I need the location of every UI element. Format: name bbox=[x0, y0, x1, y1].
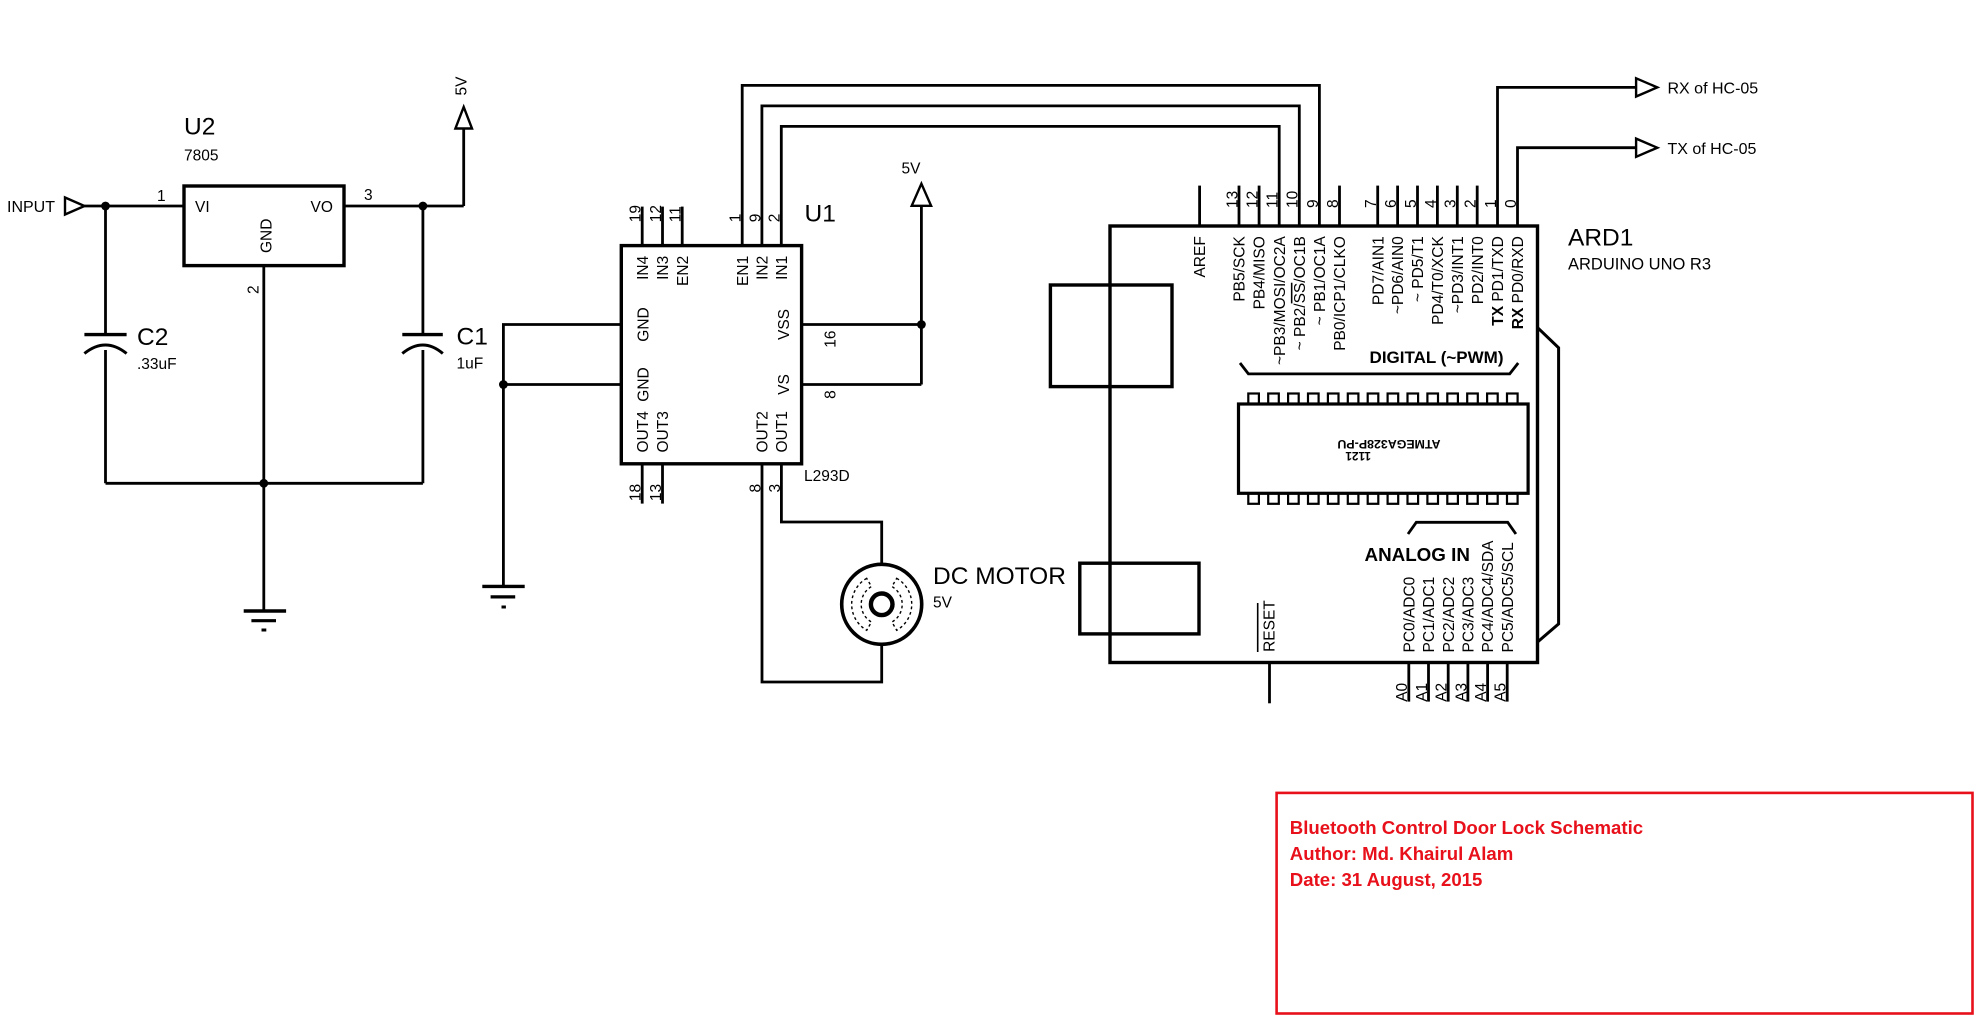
ground symbol (power section) bbox=[244, 611, 286, 630]
svg-text:EN2: EN2 bbox=[675, 256, 692, 286]
ground symbol (U1) bbox=[482, 586, 524, 607]
microcontroller ATMEGA328P-PU chip drawing bbox=[1239, 394, 1529, 504]
svg-text:1: 1 bbox=[728, 214, 745, 223]
ARD1 digital pin 3 bbox=[1443, 186, 1467, 314]
svg-text:PB0/ICP1/CLKO: PB0/ICP1/CLKO bbox=[1332, 236, 1349, 351]
svg-text:VS: VS bbox=[776, 374, 793, 395]
svg-text:3: 3 bbox=[364, 187, 373, 204]
U2 pin 2 GND wire bbox=[246, 266, 264, 484]
title block text bbox=[1290, 817, 1643, 890]
svg-text:11: 11 bbox=[1265, 192, 1282, 208]
svg-text:ANALOG IN: ANALOG IN bbox=[1365, 544, 1470, 565]
svg-text:7: 7 bbox=[1363, 199, 1380, 208]
svg-text:L293D: L293D bbox=[804, 468, 850, 485]
ARD1 analog pin A1 bbox=[1414, 577, 1438, 702]
svg-text:EN1: EN1 bbox=[735, 256, 752, 286]
svg-text:A4: A4 bbox=[1473, 682, 1490, 701]
svg-text:IN1: IN1 bbox=[774, 256, 791, 280]
ARD1 digital pin 8 bbox=[1325, 186, 1349, 351]
wire U1 VSS pin 16 to 5V bbox=[776, 309, 922, 348]
wire ARD1 RX pin 0 to TX of HC-05 bbox=[1518, 148, 1637, 226]
board edge shape of ARD1 bbox=[1538, 328, 1559, 642]
svg-text:ARDUINO UNO R3: ARDUINO UNO R3 bbox=[1568, 256, 1711, 274]
ARD1 RESET pin stub bbox=[1258, 600, 1279, 704]
ARD1 digital pin 6 bbox=[1383, 186, 1407, 315]
wire U1 OUT2 pin 8 to motor negative bbox=[747, 411, 881, 682]
off-page arrow TX of HC-05 bbox=[1636, 139, 1756, 158]
svg-text:11: 11 bbox=[668, 206, 685, 222]
svg-text:2: 2 bbox=[246, 285, 263, 294]
svg-text:5V: 5V bbox=[933, 595, 953, 612]
wire to ground symbol bbox=[262, 483, 265, 610]
U1 pin 12 IN3 stub bbox=[648, 205, 672, 280]
svg-text:4: 4 bbox=[1423, 199, 1440, 208]
svg-text:8: 8 bbox=[747, 484, 764, 493]
ARD1 analog pin A4 bbox=[1473, 540, 1497, 702]
svg-text:PD4/T0/XCK: PD4/T0/XCK bbox=[1430, 236, 1447, 325]
ARD1 digital pin 1 bbox=[1483, 199, 1507, 325]
wire INPUT to U2 VI pin 1 bbox=[85, 188, 185, 206]
wire U1 IN2 pin 9 to ARD1 digital pin 10 bbox=[747, 106, 1299, 280]
svg-text:~ PB2/SS/OC1B: ~ PB2/SS/OC1B bbox=[1292, 236, 1309, 350]
svg-text:~ PD5/T1: ~ PD5/T1 bbox=[1410, 236, 1427, 302]
capacitor C1 1uF bbox=[402, 324, 488, 373]
ARD1 digital pin 12 bbox=[1245, 186, 1269, 310]
svg-text:5: 5 bbox=[1403, 199, 1420, 208]
svg-text:OUT1: OUT1 bbox=[774, 411, 791, 452]
node INPUT (input terminal label) bbox=[7, 199, 55, 216]
svg-text:12: 12 bbox=[1245, 191, 1262, 208]
svg-text:PB5/SCK: PB5/SCK bbox=[1232, 236, 1249, 302]
ARD1 digital pin 5 bbox=[1403, 186, 1427, 303]
wire to 5V supply symbol bbox=[462, 129, 465, 207]
capacitor C2 .33uF bbox=[84, 324, 176, 373]
svg-text:~ PB1/OC1A: ~ PB1/OC1A bbox=[1312, 236, 1329, 326]
wire U1 IN1 pin 2 to ARD1 digital pin 11 bbox=[767, 126, 1279, 280]
svg-text:Bluetooth Control Door Lock Sc: Bluetooth Control Door Lock Schematic bbox=[1290, 817, 1643, 838]
junction node at VSS 5V bbox=[917, 320, 926, 329]
svg-text:2: 2 bbox=[1463, 199, 1480, 208]
svg-text:OUT2: OUT2 bbox=[755, 411, 772, 452]
svg-text:19: 19 bbox=[628, 205, 645, 222]
svg-text:PC1/ADC1: PC1/ADC1 bbox=[1421, 577, 1438, 653]
svg-text:A0: A0 bbox=[1394, 682, 1411, 701]
svg-text:A2: A2 bbox=[1434, 683, 1451, 702]
wire U1 GND pin (lower) to ground bbox=[503, 367, 652, 401]
wire down to ground symbol bbox=[502, 385, 505, 586]
svg-text:1121: 1121 bbox=[1345, 449, 1371, 463]
wire U1 GND pin (upper) to ground bbox=[503, 307, 652, 384]
svg-text:IN2: IN2 bbox=[755, 256, 772, 280]
ARD1 analog pin A2 bbox=[1434, 577, 1458, 702]
power symbol 5V (regulator output) bbox=[454, 76, 473, 129]
ARD1 digital pin 2 bbox=[1463, 186, 1487, 305]
svg-text:7805: 7805 bbox=[184, 148, 218, 165]
wire ground rail bbox=[106, 482, 423, 485]
svg-text:3: 3 bbox=[767, 484, 784, 493]
wire U1 EN1 pin 1 to ARD1 digital pin 9 bbox=[728, 85, 1320, 286]
wire 5V riser bbox=[920, 206, 923, 385]
svg-text:GND: GND bbox=[259, 219, 276, 253]
svg-text:3: 3 bbox=[1443, 199, 1460, 208]
svg-text:PB4/MISO: PB4/MISO bbox=[1252, 236, 1269, 309]
svg-text:RX PD0/RXD: RX PD0/RXD bbox=[1510, 236, 1527, 329]
svg-text:13: 13 bbox=[648, 484, 665, 501]
svg-text:1uF: 1uF bbox=[457, 356, 484, 373]
svg-text:~PD3/INT1: ~PD3/INT1 bbox=[1450, 236, 1467, 313]
ARD1 digital pin 4 bbox=[1423, 186, 1447, 325]
title block frame bbox=[1277, 793, 1973, 1014]
junction node at U1 ground bbox=[499, 380, 508, 389]
svg-text:TX PD1/TXD: TX PD1/TXD bbox=[1490, 236, 1507, 326]
svg-text:C2: C2 bbox=[137, 324, 168, 351]
svg-text:RX of HC-05: RX of HC-05 bbox=[1668, 81, 1759, 98]
svg-text:IN3: IN3 bbox=[655, 256, 672, 280]
svg-text:9: 9 bbox=[1305, 199, 1322, 208]
svg-text:GND: GND bbox=[636, 307, 653, 341]
motor M1 DC MOTOR 5V bbox=[842, 563, 1066, 644]
wire U2 VO pin 3 to 5V node bbox=[344, 187, 464, 206]
svg-text:GND: GND bbox=[636, 367, 653, 401]
ARD1 digital pin 7 bbox=[1363, 186, 1387, 306]
svg-text:PC5/ADC5/SCL: PC5/ADC5/SCL bbox=[1500, 542, 1517, 653]
svg-text:~PB3/MOSI/OC2A: ~PB3/MOSI/OC2A bbox=[1272, 236, 1289, 365]
svg-text:12: 12 bbox=[648, 205, 665, 222]
svg-text:.33uF: .33uF bbox=[137, 356, 177, 373]
svg-text:IN4: IN4 bbox=[635, 255, 652, 279]
wire ARD1 TX pin 1 to RX of HC-05 bbox=[1498, 87, 1637, 226]
svg-text:PC4/ADC4/SDA: PC4/ADC4/SDA bbox=[1480, 540, 1497, 653]
svg-text:PC3/ADC3: PC3/ADC3 bbox=[1461, 577, 1478, 653]
power jack rectangle of ARD1 bbox=[1080, 563, 1199, 634]
svg-text:VI: VI bbox=[195, 199, 210, 216]
svg-text:U2: U2 bbox=[184, 114, 215, 141]
svg-text:PC0/ADC0: PC0/ADC0 bbox=[1401, 576, 1418, 652]
svg-text:8: 8 bbox=[823, 390, 840, 399]
svg-text:AREF: AREF bbox=[1192, 236, 1209, 277]
svg-text:PD2/INT0: PD2/INT0 bbox=[1470, 236, 1487, 304]
motor driver U1 L293D body bbox=[621, 201, 849, 486]
svg-text:INPUT: INPUT bbox=[7, 199, 55, 216]
power symbol 5V (U1 supply) bbox=[902, 161, 932, 206]
ARD1 analog pin A0 bbox=[1394, 576, 1418, 701]
DIGITAL (~PWM) group label and bracket bbox=[1240, 348, 1518, 374]
svg-text:PD7/AIN1: PD7/AIN1 bbox=[1370, 236, 1387, 305]
svg-text:OUT4: OUT4 bbox=[635, 411, 652, 453]
svg-text:10: 10 bbox=[1285, 190, 1302, 208]
ARD1 analog pin A3 bbox=[1453, 577, 1477, 702]
svg-text:C1: C1 bbox=[457, 324, 488, 351]
svg-text:1: 1 bbox=[157, 188, 166, 205]
svg-text:VO: VO bbox=[311, 199, 333, 216]
wire C2 top bbox=[104, 206, 107, 333]
svg-text:A3: A3 bbox=[1453, 683, 1470, 702]
svg-text:RESET: RESET bbox=[1262, 600, 1279, 652]
svg-text:U1: U1 bbox=[805, 201, 836, 228]
svg-text:Date: 31 August, 2015: Date: 31 August, 2015 bbox=[1290, 869, 1483, 890]
wire U1 OUT1 pin 3 to motor positive bbox=[767, 411, 882, 564]
junction node on ground rail bbox=[259, 479, 268, 488]
U1 pin 18 OUT4 stub bbox=[628, 411, 652, 504]
svg-text:A1: A1 bbox=[1414, 683, 1431, 702]
wire C1 bottom bbox=[421, 350, 424, 483]
ARD1 digital pin 0 bbox=[1503, 199, 1527, 329]
svg-text:VSS: VSS bbox=[776, 309, 793, 340]
USB connector rectangle of ARD1 bbox=[1050, 285, 1172, 387]
ARD1 AREF pin stub bbox=[1192, 186, 1209, 278]
ARD1 analog pin A5 bbox=[1493, 542, 1517, 702]
wire C2 bottom bbox=[104, 350, 107, 483]
svg-text:6: 6 bbox=[1383, 199, 1400, 208]
svg-text:13: 13 bbox=[1224, 191, 1241, 208]
ARD1 digital pin 10 bbox=[1285, 190, 1309, 350]
U1 pin 11 EN2 stub bbox=[668, 206, 692, 286]
junction node at INPUT / C2 bbox=[101, 202, 110, 211]
svg-text:TX of HC-05: TX of HC-05 bbox=[1668, 141, 1757, 158]
off-page arrow RX of HC-05 bbox=[1636, 78, 1758, 97]
wire C1 top bbox=[421, 206, 424, 333]
svg-text:A5: A5 bbox=[1493, 683, 1510, 702]
svg-text:PC2/ADC2: PC2/ADC2 bbox=[1441, 577, 1458, 653]
svg-text:9: 9 bbox=[747, 214, 764, 223]
ARD1 digital pin 11 bbox=[1265, 192, 1289, 365]
svg-text:ARD1: ARD1 bbox=[1568, 225, 1633, 252]
svg-text:~PD6/AIN0: ~PD6/AIN0 bbox=[1390, 236, 1407, 314]
svg-text:DIGITAL (~PWM): DIGITAL (~PWM) bbox=[1370, 348, 1504, 367]
svg-text:Author: Md. Khairul Alam: Author: Md. Khairul Alam bbox=[1290, 843, 1513, 864]
svg-text:5V: 5V bbox=[454, 76, 471, 96]
input terminal arrow bbox=[65, 198, 85, 215]
svg-text:8: 8 bbox=[1325, 199, 1342, 208]
U1 pin 19 IN4 stub bbox=[628, 205, 652, 280]
svg-text:2: 2 bbox=[767, 214, 784, 223]
svg-text:DC MOTOR: DC MOTOR bbox=[933, 563, 1066, 590]
ARD1 digital pin 13 bbox=[1224, 186, 1248, 302]
voltage regulator U2 7805 bbox=[184, 114, 344, 266]
svg-text:OUT3: OUT3 bbox=[655, 411, 672, 452]
U1 pin 13 OUT3 stub bbox=[648, 411, 672, 503]
svg-text:18: 18 bbox=[628, 484, 645, 501]
svg-text:16: 16 bbox=[823, 331, 840, 348]
svg-text:5V: 5V bbox=[902, 161, 922, 178]
arduino board ARD1 body bbox=[1110, 225, 1711, 663]
wire U1 VS pin 8 to 5V node bbox=[776, 374, 922, 399]
junction node at VO / C1 bbox=[419, 202, 428, 211]
ANALOG IN group label and bracket bbox=[1365, 522, 1516, 565]
ARD1 digital pin 9 bbox=[1305, 199, 1329, 325]
svg-text:ATMEGA328P-PU: ATMEGA328P-PU bbox=[1337, 437, 1440, 451]
